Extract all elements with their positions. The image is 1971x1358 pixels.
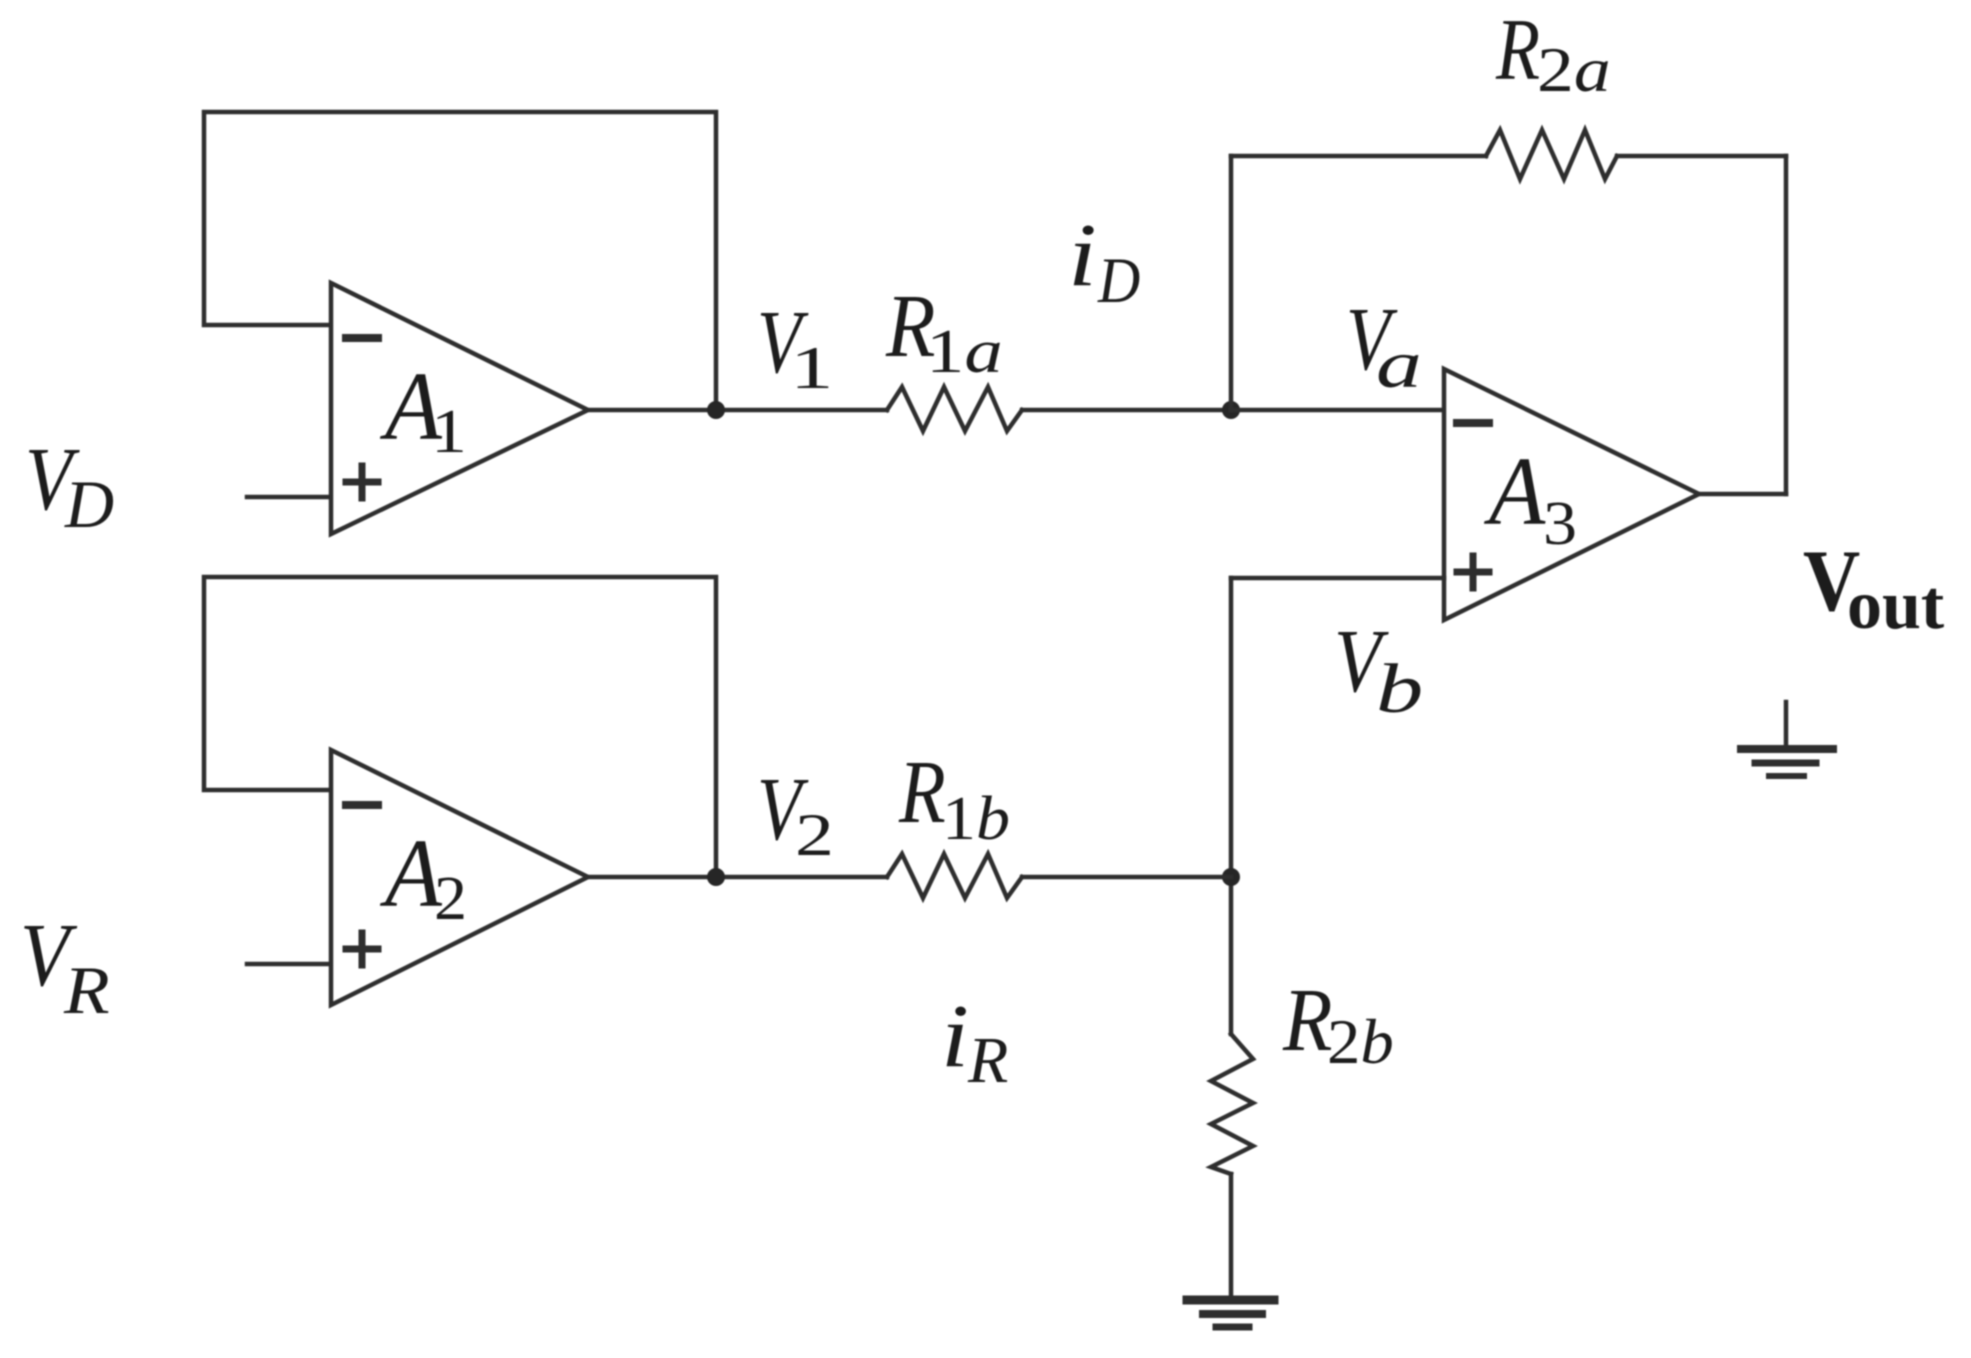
label A2: [379, 819, 467, 933]
svg-text:1: 1: [431, 396, 467, 466]
svg-text:3: 3: [1543, 489, 1577, 558]
op-amp A3: [1444, 369, 1699, 620]
resistor R1a: [887, 387, 1022, 431]
ground (right, Vout reference): [1741, 702, 1833, 776]
label node V2: [757, 759, 834, 869]
label node Va: [1346, 289, 1422, 402]
svg-text:A: A: [1483, 436, 1546, 545]
ground (bottom, under R2b): [1187, 1300, 1274, 1327]
label node V1: [757, 292, 833, 402]
svg-text:1a: 1a: [926, 316, 1003, 386]
label R1a: [885, 276, 1003, 386]
wire R2b to ground: [1229, 1174, 1234, 1299]
svg-text:A: A: [379, 819, 442, 928]
wire R1a to node Va: [1022, 408, 1231, 413]
wire node Vb vertical down to R2b: [1229, 578, 1234, 1034]
wire A3 output: [1699, 492, 1786, 497]
wire R1b to node Vb: [1022, 875, 1231, 880]
wire node Va to A3 inverting input: [1231, 408, 1444, 413]
svg-text:out: out: [1847, 567, 1944, 644]
svg-text:2a: 2a: [1537, 35, 1611, 105]
svg-text:D: D: [1097, 245, 1140, 316]
label R2a: [1495, 1, 1611, 104]
node V2 junction: [707, 868, 725, 886]
label R1b: [898, 743, 1010, 853]
wire A1 output to node V1: [588, 408, 887, 413]
label R2b: [1282, 970, 1394, 1077]
svg-text:2: 2: [795, 802, 834, 868]
svg-text:D: D: [64, 466, 114, 542]
svg-text:R: R: [898, 743, 946, 842]
resistor R2a: [1486, 130, 1617, 179]
wire A3 noninverting input horizontal (node Vb): [1231, 576, 1444, 581]
svg-text:2: 2: [434, 862, 467, 932]
svg-text:i: i: [1068, 205, 1097, 304]
svg-text:2b: 2b: [1327, 1008, 1394, 1078]
node V1 junction: [707, 401, 725, 419]
svg-text:i: i: [941, 986, 969, 1086]
wire A2 noninverting input from VR: [247, 962, 331, 967]
wire A1 feedback loop (output to inverting input): [204, 112, 716, 404]
svg-text:R: R: [63, 953, 110, 1028]
resistor R1b: [887, 854, 1022, 898]
label current iD: [1068, 205, 1140, 317]
wire A2 output to node V2: [588, 875, 887, 880]
wire right vertical down to A3 output: [1784, 156, 1789, 494]
label current iR: [941, 986, 1008, 1097]
wire A2 feedback loop (output to inverting input): [204, 577, 716, 871]
svg-text:R: R: [1282, 970, 1332, 1070]
node Vb junction: [1222, 868, 1240, 886]
svg-text:b: b: [1376, 650, 1423, 727]
wire feedback top left segment: [1231, 154, 1486, 159]
label VR (input voltage): [20, 905, 110, 1028]
op-amp A1: [331, 283, 588, 534]
label VD (input voltage): [25, 430, 114, 542]
label A1: [379, 352, 467, 466]
op-amp A2: [331, 750, 588, 1005]
wire node Va up to feedback branch: [1229, 156, 1234, 410]
svg-text:R: R: [967, 1024, 1008, 1097]
svg-text:1: 1: [790, 335, 833, 402]
node Va junction: [1222, 401, 1240, 419]
svg-text:a: a: [1376, 327, 1422, 402]
label Vout: [1803, 532, 1944, 644]
label node Vb: [1334, 612, 1423, 727]
label A3: [1483, 436, 1577, 558]
wire R2a to right corner: [1617, 154, 1786, 159]
resistor R2b: [1211, 1034, 1253, 1174]
svg-text:R: R: [1495, 1, 1540, 98]
wire A1 noninverting input from VD: [247, 495, 331, 500]
svg-text:1b: 1b: [942, 784, 1010, 853]
